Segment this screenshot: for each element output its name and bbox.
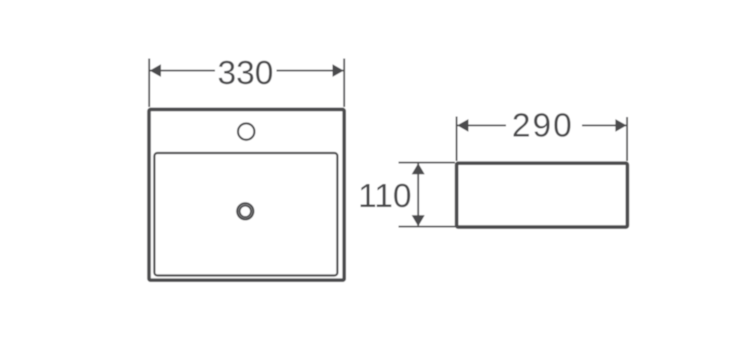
dimension line 110 — [417, 163, 419, 225]
drain outer ring — [237, 203, 253, 219]
dimension line 330 left segment — [150, 70, 215, 72]
arrowhead 290 right — [615, 119, 626, 132]
dimension line 290 right segment — [582, 124, 626, 126]
faucet hole — [238, 123, 254, 139]
tank body (side view) — [457, 163, 628, 227]
arrowhead 110 top — [412, 163, 425, 174]
extension line top (110) — [399, 162, 456, 164]
arrowhead 110 bottom — [412, 215, 425, 226]
arrowhead 290 left — [457, 119, 468, 132]
basin outer rim (top view) — [149, 109, 344, 280]
drain inner ring — [240, 206, 252, 218]
basin inner bowl (top view) — [154, 153, 337, 276]
arrowhead 330 left — [150, 64, 161, 77]
extension line right (290) — [626, 117, 628, 161]
extension line right (330) — [343, 59, 345, 108]
dimension line 330 right segment — [277, 70, 344, 72]
extension line left (330) — [148, 59, 150, 108]
svg-text:110: 110 — [358, 178, 411, 215]
arrowhead 330 right — [333, 64, 344, 77]
dimension line 290 left segment — [457, 124, 506, 126]
svg-text:290: 290 — [512, 108, 574, 145]
extension line left (290) — [456, 117, 458, 162]
extension line bottom (110) — [399, 226, 456, 228]
svg-text:330: 330 — [218, 55, 274, 92]
